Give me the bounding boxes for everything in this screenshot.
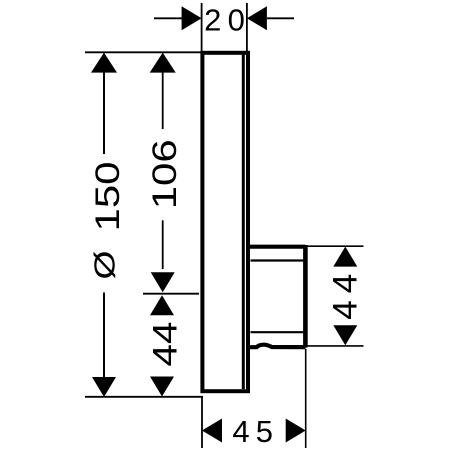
svg-text:4 5: 4 5: [232, 414, 273, 449]
svg-text:4 4: 4 4: [327, 274, 365, 320]
svg-text:106: 106: [146, 139, 184, 209]
svg-text:150: 150: [89, 162, 127, 232]
svg-text:2 0: 2 0: [204, 3, 245, 38]
svg-text:44: 44: [147, 322, 185, 367]
svg-text:Ø: Ø: [90, 251, 122, 280]
